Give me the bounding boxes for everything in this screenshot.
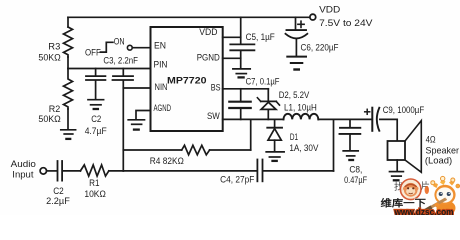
svg-text:Audio: Audio [11, 159, 36, 170]
svg-text:OFF: OFF [85, 47, 101, 58]
wire top VDD rail [68, 16, 310, 18]
wire EN pin [132, 47, 150, 49]
label EN [154, 40, 166, 51]
svg-text:PIN: PIN [154, 60, 168, 71]
wire NIN pin [123, 87, 150, 89]
label PIN [154, 60, 168, 71]
svg-text:AGND: AGND [154, 103, 172, 114]
ground C5 PGND [233, 69, 250, 78]
svg-text:7.5V to 24V: 7.5V to 24V [319, 18, 373, 29]
wire SW pin [223, 118, 284, 120]
svg-text:4Ω: 4Ω [426, 135, 436, 146]
label PGND pin [197, 53, 220, 64]
svg-text:C6, 220µF: C6, 220µF [301, 42, 339, 53]
ground C6 [287, 57, 306, 70]
ground D1 [266, 152, 284, 161]
svg-text:D1: D1 [290, 132, 298, 143]
ground C8 [343, 151, 358, 160]
svg-text:C2: C2 [91, 114, 101, 125]
label R1 [84, 178, 106, 200]
wire C4 tap down [333, 119, 335, 171]
label D1 [289, 132, 319, 154]
svg-text:www.dzsc.com: www.dzsc.com [394, 207, 454, 215]
svg-text:VDD: VDD [199, 27, 217, 38]
svg-text:NIN: NIN [155, 82, 168, 93]
diode D1 freewheel [267, 119, 282, 150]
capacitor C4 27pF [257, 160, 262, 182]
svg-text:2.2µF: 2.2µF [46, 196, 70, 207]
svg-text:EN: EN [154, 40, 166, 51]
svg-text:ON: ON [114, 37, 125, 48]
capacitor C8 0.47uF [340, 119, 361, 149]
svg-text:R3: R3 [48, 42, 60, 53]
label C5 [246, 32, 275, 43]
label MP7720 [167, 76, 207, 87]
capacitor C7 bootstrap [229, 89, 250, 120]
label C3 [103, 56, 138, 67]
label Audio Input [11, 159, 36, 181]
label C7 [246, 77, 280, 88]
svg-text:L1, 10µH: L1, 10µH [284, 103, 317, 114]
label L1 [284, 103, 317, 114]
svg-text:BS: BS [211, 82, 221, 93]
svg-text:1A, 30V: 1A, 30V [289, 143, 319, 154]
wire C3 down to NIN net [122, 81, 124, 171]
wire speaker to ground [396, 160, 398, 171]
wire feedback tap down to R4 [250, 119, 252, 150]
label SW pin [207, 111, 220, 122]
label D2 [279, 90, 310, 101]
label C8 [344, 165, 367, 187]
wire VDD pin to rail [223, 36, 241, 38]
label speaker [425, 135, 459, 167]
capacitor C9 1000uF electrolytic [372, 108, 379, 131]
svg-text:0.47µF: 0.47µF [344, 175, 367, 186]
label BS pin [211, 82, 221, 93]
label C6 [301, 42, 339, 53]
label ON [114, 37, 125, 48]
label C4 [220, 174, 254, 185]
wire AGND pin [136, 111, 151, 119]
wire C9 to speaker [380, 119, 397, 141]
zener D2 5.2V [257, 89, 279, 120]
svg-text:C8,: C8, [349, 165, 362, 176]
capacitor C5 1uF [230, 44, 254, 68]
svg-text:4.7µF: 4.7µF [85, 126, 107, 137]
svg-text:C7, 0.1µF: C7, 0.1µF [246, 77, 280, 88]
audio input terminal [40, 168, 46, 174]
label OFF [85, 47, 101, 58]
wire PGND pin [223, 57, 241, 59]
capacitor C2 bias 4.7uF [86, 69, 105, 99]
label C2 4.7uF [85, 114, 107, 137]
svg-text:50KΩ: 50KΩ [38, 114, 60, 125]
op-amp U1 MP7720 IC body [151, 27, 223, 131]
svg-text:PGND: PGND [197, 53, 220, 64]
svg-text:Input: Input [12, 170, 34, 181]
svg-text:10KΩ: 10KΩ [84, 189, 106, 200]
wire R1 to NIN node to C4 [109, 170, 257, 172]
label R2 [38, 104, 60, 125]
svg-text:R4 82KΩ: R4 82KΩ [150, 156, 184, 167]
VDD terminal circle [310, 14, 316, 20]
label R3 [38, 42, 60, 64]
resistor R4 feedback [123, 145, 250, 155]
wire rail drop to C5 [240, 17, 242, 44]
svg-text:SW: SW [207, 111, 220, 122]
wire input to C2 [47, 170, 57, 172]
label VDD supply [319, 4, 373, 28]
svg-text:50KΩ: 50KΩ [38, 53, 60, 64]
label C9 [383, 105, 425, 116]
label VDD pin [199, 27, 217, 38]
svg-text:D2, 5.2V: D2, 5.2V [279, 90, 310, 101]
ground R2 [61, 130, 76, 139]
switch OFF/ON [100, 42, 113, 52]
ground speaker [390, 172, 404, 181]
svg-text:C9, 1000µF: C9, 1000µF [383, 105, 425, 116]
switch contact circle [127, 45, 132, 50]
resistor R1 [80, 165, 108, 176]
capacitor C2 input 2.2uF [58, 161, 63, 181]
label R4 [150, 156, 184, 167]
svg-text:R1: R1 [89, 178, 99, 189]
label NIN [155, 82, 168, 93]
inductor L1 10uH [284, 114, 319, 120]
label AGND [154, 103, 172, 114]
wire C4 to output tap [263, 170, 333, 172]
plus sign C6 [298, 21, 304, 27]
svg-text:C3, 2.2nF: C3, 2.2nF [103, 56, 138, 67]
svg-text:VDD: VDD [319, 4, 340, 15]
capacitor C3 2.2nF [113, 69, 134, 81]
svg-text:(Load): (Load) [425, 156, 452, 167]
watermark mascot [425, 176, 460, 215]
wire output node [318, 118, 372, 120]
wire C2 to R1 [63, 170, 80, 172]
watermark seal [400, 179, 421, 200]
svg-text:C5, 1µF: C5, 1µF [246, 32, 275, 43]
svg-text:C2: C2 [53, 186, 64, 197]
label C2 2.2uF [46, 186, 70, 207]
resistor R2 [64, 69, 73, 110]
wire R2 to ground [67, 109, 69, 129]
capacitor C6 220uF electrolytic [286, 17, 308, 55]
resistor R3 [64, 27, 73, 57]
wire BS pin [223, 88, 269, 90]
watermark dzsc.com [381, 176, 460, 218]
wire PIN net [68, 68, 151, 70]
ground AGND [128, 120, 144, 130]
speaker horn [405, 121, 421, 173]
wire rail to R3 [67, 17, 69, 27]
svg-text:MP7720: MP7720 [167, 76, 207, 87]
speaker box [388, 141, 406, 160]
ground C2 [88, 100, 104, 109]
wire R3 to node [67, 57, 69, 69]
svg-text:C4, 27pF: C4, 27pF [220, 174, 254, 185]
plus sign C9 [365, 109, 370, 114]
